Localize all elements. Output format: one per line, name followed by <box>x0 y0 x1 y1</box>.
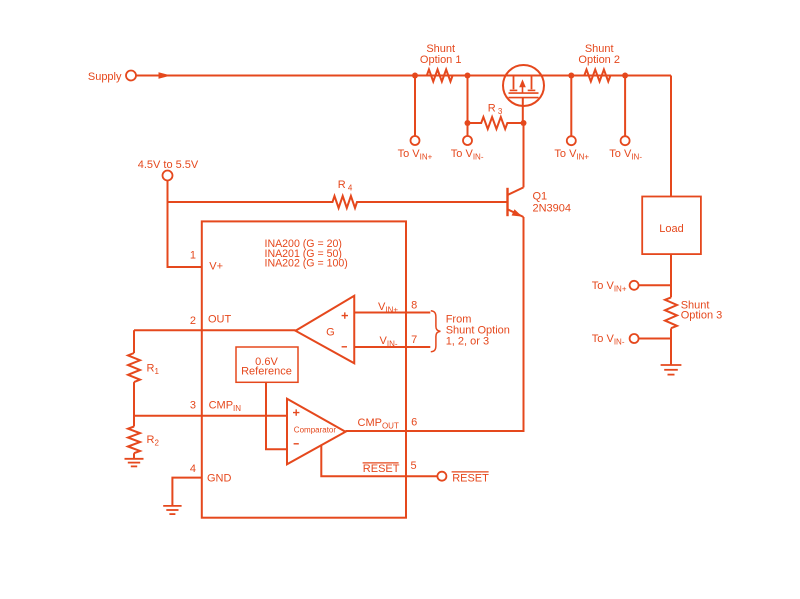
overline RESET inside <box>363 462 399 464</box>
svg-text:To VIN-: To VIN- <box>451 148 484 162</box>
wire main supply rail <box>136 75 671 77</box>
svg-text:VIN+: VIN+ <box>378 301 398 315</box>
svg-text:RESET: RESET <box>363 463 400 475</box>
svg-text:R 3: R 3 <box>488 102 503 116</box>
wire 4.5V supply vertical and V+ pin 1 <box>168 181 202 268</box>
svg-text:2: 2 <box>190 315 196 327</box>
svg-text:To VIN+: To VIN+ <box>398 148 433 162</box>
op-amp G triangle <box>296 296 355 364</box>
svg-text:RESET: RESET <box>452 472 489 484</box>
node To VIN+ terminal shunt3 <box>630 281 639 290</box>
brace from shunt options <box>431 311 441 352</box>
comparator plus sign <box>293 409 299 415</box>
svg-text:5: 5 <box>410 460 416 472</box>
svg-text:Option 2: Option 2 <box>578 54 620 66</box>
svg-text:CMPIN: CMPIN <box>209 400 242 414</box>
svg-text:GND: GND <box>207 473 232 485</box>
node To VIN- terminal shunt2 <box>621 136 630 145</box>
svg-text:VIN-: VIN- <box>380 335 398 349</box>
junction dot A <box>412 73 418 79</box>
resistor Shunt Option 2 <box>584 70 610 82</box>
MOSFET body arrow <box>522 87 524 93</box>
ground under R2 <box>125 458 144 460</box>
svg-text:4: 4 <box>190 463 196 475</box>
svg-text:To VIN+: To VIN+ <box>554 148 589 162</box>
wire VIN+ pin 8 <box>354 312 430 314</box>
wire to VIN+ shunt1 <box>414 76 416 137</box>
wire load top <box>670 76 672 197</box>
svg-text:INA202 (G = 100): INA202 (G = 100) <box>265 258 348 270</box>
wire VIN+ stub shunt3 <box>639 284 671 286</box>
node To VIN- terminal shunt3 <box>630 334 639 343</box>
wire left vertical upper <box>133 330 135 353</box>
junction dot B <box>465 73 471 79</box>
svg-text:R1: R1 <box>147 363 160 377</box>
svg-text:OUT: OUT <box>208 314 232 326</box>
svg-text:Reference: Reference <box>241 366 292 378</box>
wire GND pin 4 <box>172 478 201 506</box>
junction dot R3 right <box>521 120 527 126</box>
svg-text:CMPOUT: CMPOUT <box>358 417 399 431</box>
junction dot D <box>622 73 628 79</box>
wire RESET pin 5 <box>321 445 437 477</box>
resistor R1 <box>128 353 140 382</box>
comparator U triangle <box>287 399 346 465</box>
resistor Shunt Option 1 <box>427 70 453 82</box>
svg-text:To VIN-: To VIN- <box>609 148 642 162</box>
wire load bottom to shunt3 <box>670 254 672 297</box>
transistor Q1 collector diagonal <box>508 187 524 195</box>
transistor Q1 base bar <box>506 188 508 216</box>
svg-text:3: 3 <box>190 400 196 412</box>
wire to VIN+ shunt2 <box>570 76 572 137</box>
wire reference to comparator minus <box>266 383 287 449</box>
wire CMP_IN pin 3 <box>134 415 287 417</box>
wire left vertical middle <box>133 382 135 426</box>
svg-text:V+: V+ <box>209 261 223 273</box>
wire shunt3 to ground <box>670 328 672 364</box>
IC box INA200 <box>202 221 406 517</box>
svg-text:Q1: Q1 <box>533 191 548 203</box>
transistor Q1 emitter arrow <box>512 209 523 216</box>
wire emitter vertical down to pin 6 line <box>346 217 524 431</box>
box Load <box>642 197 701 255</box>
svg-text:Comparator: Comparator <box>294 426 337 435</box>
svg-text:Supply: Supply <box>88 71 122 83</box>
wire VIN- stub shunt3 <box>639 338 671 340</box>
svg-text:To VIN-: To VIN- <box>592 333 625 347</box>
MOSFET left source foot <box>510 89 518 91</box>
MOSFET right drain foot <box>528 89 536 91</box>
wire arrow on supply rail <box>159 72 172 78</box>
MOSFET gate line <box>509 97 539 99</box>
svg-text:Option 1: Option 1 <box>420 54 462 66</box>
transistor Q1 emitter diagonal <box>508 209 524 217</box>
ground under GND pin <box>163 505 181 507</box>
wire R2 to ground <box>133 453 135 458</box>
MOSFET right drain vertical <box>531 77 533 90</box>
wire to VIN- shunt2 <box>624 76 626 137</box>
op-amp minus sign <box>342 346 347 348</box>
MOSFET channel line <box>509 92 539 94</box>
svg-text:G: G <box>326 327 335 339</box>
ground under shunt3 <box>661 364 682 366</box>
node To VIN+ terminal shunt2 <box>567 136 576 145</box>
svg-text:4.5V to 5.5V: 4.5V to 5.5V <box>138 159 199 171</box>
svg-text:To VIN+: To VIN+ <box>592 280 627 294</box>
junction dot C <box>568 73 574 79</box>
MOSFET Q body circle <box>503 65 544 106</box>
svg-text:2N3904: 2N3904 <box>533 202 572 214</box>
node To VIN+ terminal shunt1 <box>411 136 420 145</box>
wire MOSFET gate lead <box>522 98 524 123</box>
resistor Shunt Option 3 <box>665 297 677 328</box>
resistor R2 <box>128 427 140 454</box>
svg-text:6: 6 <box>411 416 417 428</box>
op-amp plus sign <box>342 312 348 318</box>
svg-text:Option 3: Option 3 <box>681 310 723 322</box>
svg-text:1, 2, or 3: 1, 2, or 3 <box>446 336 489 348</box>
svg-text:R 4: R 4 <box>338 179 353 193</box>
wire OUT pin 2 to R1 <box>134 329 296 331</box>
svg-text:R2: R2 <box>147 434 160 448</box>
node Supply terminal <box>126 71 136 81</box>
svg-text:From: From <box>446 314 472 326</box>
overline RESET outside <box>452 471 489 473</box>
box 0.6V reference <box>236 347 298 382</box>
node RESET terminal <box>437 472 446 481</box>
svg-text:1: 1 <box>190 249 196 261</box>
wire to VIN- shunt1 <box>467 76 469 137</box>
svg-text:7: 7 <box>411 334 417 346</box>
wire VIN- pin 7 <box>354 346 430 348</box>
svg-text:8: 8 <box>411 299 417 311</box>
wire collector vertical Q1 <box>523 123 525 187</box>
comparator minus sign <box>294 443 299 445</box>
resistor R3 <box>468 117 524 129</box>
MOSFET left source vertical <box>513 77 515 90</box>
junction dot R3 left <box>465 120 471 126</box>
node 4.5V supply terminal <box>163 171 173 181</box>
resistor R4 with base wire <box>168 196 508 208</box>
svg-text:Load: Load <box>659 223 683 235</box>
node To VIN- terminal shunt1 <box>463 136 472 145</box>
